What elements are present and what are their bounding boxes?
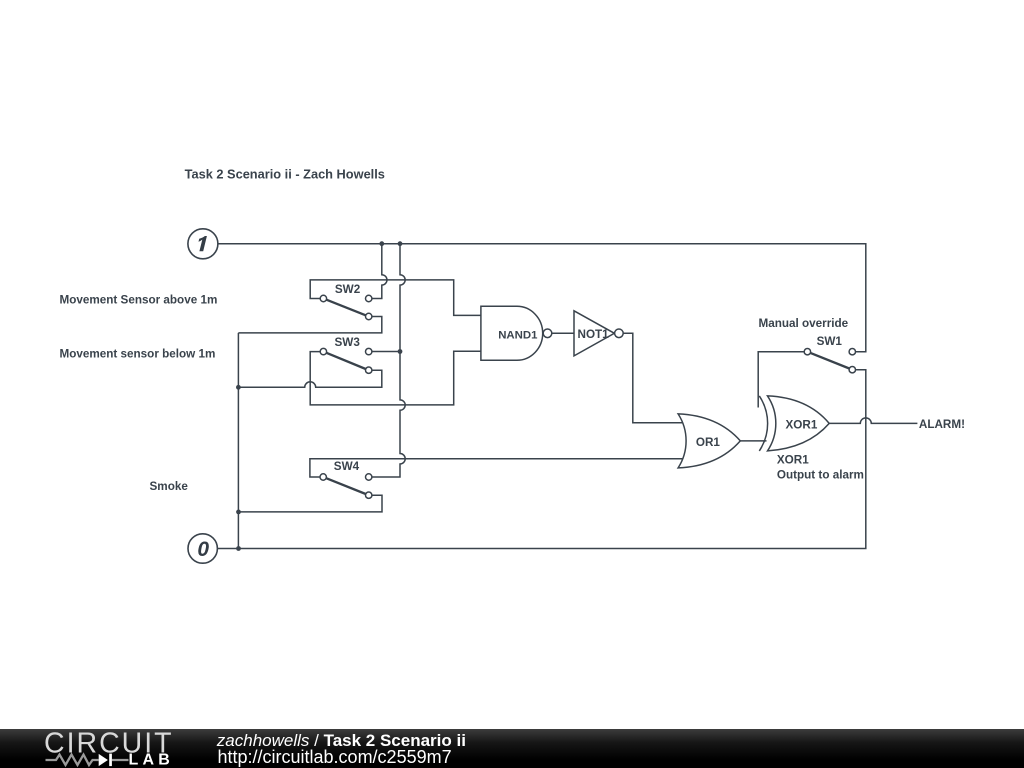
svg-text:Output to alarm: Output to alarm [777, 468, 864, 481]
node junction dot top rail 1 [379, 241, 384, 246]
gate XOR1 [759, 396, 829, 451]
gate OR1 [678, 414, 740, 468]
svg-text:Task 2 Scenario ii - Zach Howe: Task 2 Scenario ii - Zach Howells [185, 167, 385, 182]
wire vertical from node1 rail to SW4 throw A [372, 244, 405, 477]
switch SW1 manual override [804, 335, 855, 373]
svg-text:LAB: LAB [129, 752, 174, 768]
switch SW2 [320, 283, 372, 320]
svg-text:Smoke: Smoke [150, 480, 189, 493]
svg-text:Manual override: Manual override [759, 317, 849, 330]
wire XOR1 output to ALARM [829, 418, 917, 424]
wire SW3 common to NAND1 input B [310, 351, 481, 405]
node junction dot net0 SW4 branch [236, 510, 241, 515]
wire SW4 throw B down-left [239, 495, 383, 512]
svg-text:SW1: SW1 [817, 335, 843, 348]
node junction dot SW3 throw A [398, 349, 403, 354]
wire net0 branch to SW3 throw B [238, 370, 381, 387]
node junction dot net0 rail [236, 546, 241, 551]
svg-text:XOR1: XOR1 [777, 454, 809, 467]
gate NAND1 [481, 306, 552, 360]
switch SW3 [320, 336, 372, 373]
wire SW2 common to NAND1 input A [310, 280, 481, 316]
svg-text:SW2: SW2 [335, 283, 361, 296]
wire SW2 throw B down-left [238, 317, 381, 333]
logo resistor and diode [46, 755, 129, 765]
svg-text:OR1: OR1 [696, 436, 721, 449]
svg-text:NAND1: NAND1 [498, 330, 538, 342]
wire NOT1 output to OR1 input A [623, 333, 682, 423]
node 0 terminal [188, 534, 217, 563]
footer bar [0, 729, 1024, 768]
svg-text:Movement Sensor above 1m: Movement Sensor above 1m [60, 294, 218, 307]
gate NOT1 [574, 311, 623, 356]
node 1 terminal [188, 229, 218, 259]
wire vertical from node1 rail to SW2 throw A [372, 244, 387, 299]
svg-text:NOT1: NOT1 [578, 328, 610, 341]
wire SW3 throw A to net1 vertical [372, 351, 400, 353]
svg-text:http://circuitlab.com/c2559m7: http://circuitlab.com/c2559m7 [218, 747, 452, 767]
wire OR1 output to XOR1 input B [740, 440, 766, 442]
wire net 0 left vertical [237, 333, 239, 549]
wire SW1 common to XOR1 input A [758, 352, 804, 408]
wire net 1 top rail [218, 244, 866, 352]
wire net 0 bottom rail and right side up to SW1 throw B [217, 370, 866, 549]
switch SW4 [320, 460, 372, 498]
svg-text:SW4: SW4 [334, 460, 360, 473]
svg-text:XOR1: XOR1 [786, 418, 818, 431]
CircuitLab logo wordmark [44, 728, 174, 768]
node junction dot top rail 2 [398, 241, 403, 246]
svg-text:SW3: SW3 [335, 336, 361, 349]
node junction dot net0 SW3 branch [236, 385, 241, 390]
wire SW4 common to OR1 input B [310, 459, 683, 477]
svg-text:ALARM!: ALARM! [919, 418, 965, 431]
svg-text:0: 0 [197, 538, 209, 561]
svg-text:Movement sensor below 1m: Movement sensor below 1m [60, 347, 216, 360]
wire NAND1 output to NOT1 input [552, 332, 574, 334]
